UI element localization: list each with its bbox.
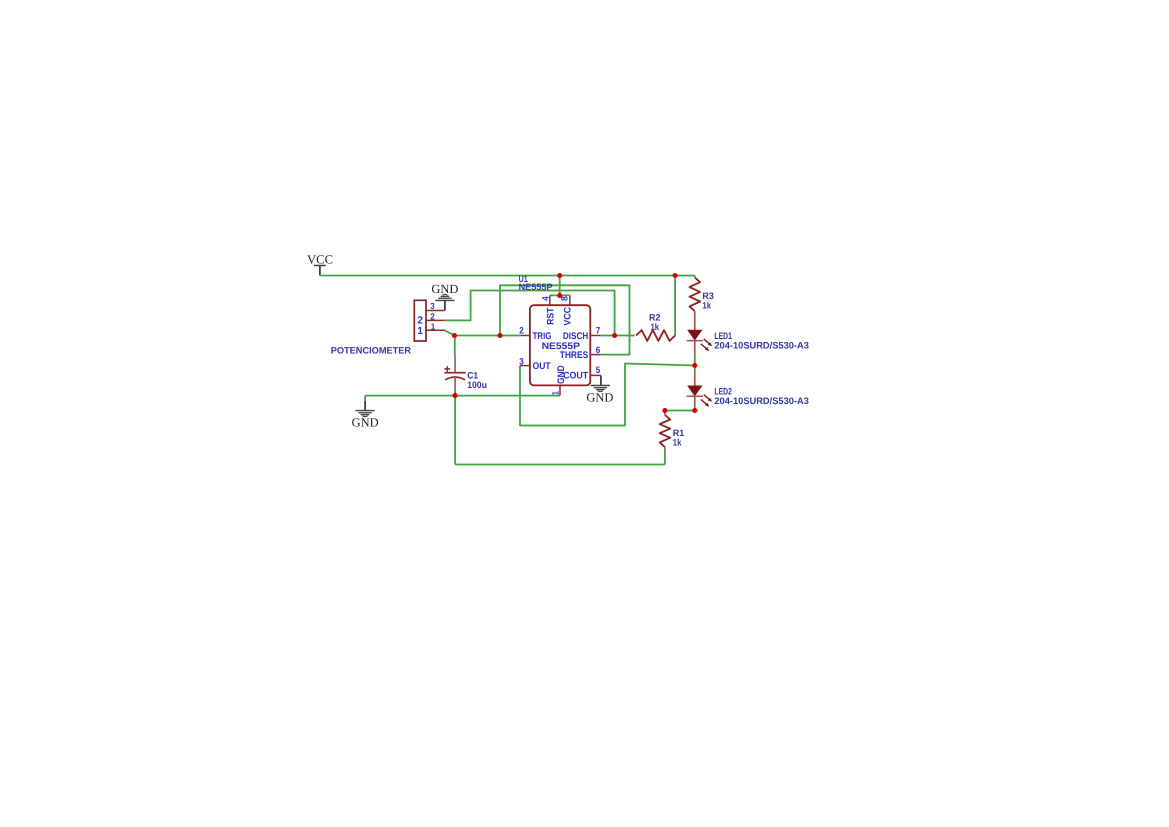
svg-text:RST: RST — [546, 307, 557, 325]
U1 pin 4 stub — [549, 295, 551, 305]
wire GND net — [365, 395, 560, 397]
net label VCC — [307, 252, 333, 266]
svg-text:6: 6 — [596, 345, 601, 355]
potentiometer body — [414, 300, 426, 341]
svg-text:NE555P: NE555P — [519, 282, 553, 292]
wire TRIG — [455, 335, 521, 337]
power symbol VCC — [314, 266, 326, 276]
svg-text:2: 2 — [519, 326, 524, 336]
potentiometer pin 1 stub — [426, 329, 445, 331]
potentiometer pin number 2 — [430, 311, 434, 321]
U1 pin number 6 — [596, 345, 601, 355]
wire VCC rail — [320, 275, 695, 277]
svg-text:5: 5 — [596, 365, 601, 375]
wire bottom rail — [455, 464, 665, 466]
resistor R2 — [636, 330, 675, 341]
U1 pin number 8 — [560, 296, 570, 301]
U1 pin name GND — [556, 365, 567, 384]
wire C1 to bottom rail — [454, 396, 456, 465]
svg-text:1: 1 — [551, 391, 561, 395]
U1 pin name TRIG — [533, 331, 552, 342]
label LED1 — [714, 330, 732, 341]
capacitor C1 top plate — [444, 372, 465, 374]
U1 pin number 5 — [596, 365, 601, 375]
resistor R1 — [660, 411, 671, 451]
U1 pin 6 stub — [590, 354, 601, 356]
ground at pin 5 — [586, 375, 613, 404]
ground at C1 — [352, 401, 379, 430]
junction VCC/IC — [557, 273, 562, 278]
label C1 — [467, 370, 478, 380]
U1 pin name DISCH — [563, 331, 588, 342]
svg-text:VCC: VCC — [307, 252, 333, 266]
LED2 — [687, 371, 713, 411]
U1 pin number 3 — [519, 357, 524, 367]
U1 pin 1 stub — [559, 385, 561, 395]
svg-text:204-10SURD/S530-A3: 204-10SURD/S530-A3 — [714, 339, 809, 350]
svg-text:2: 2 — [417, 315, 423, 326]
svg-text:3: 3 — [519, 357, 524, 367]
svg-text:POTENCIOMETER: POTENCIOMETER — [331, 346, 412, 356]
label R3 — [702, 291, 714, 301]
svg-text:OUT: OUT — [533, 361, 551, 372]
capacitor C1 plus sign — [444, 366, 450, 372]
junction C1/GND — [453, 393, 458, 398]
ground at potentiometer — [431, 282, 458, 311]
svg-text:C1: C1 — [467, 370, 478, 380]
U1 pin number 7 — [596, 326, 601, 336]
label LED2 — [714, 385, 732, 396]
junction VCC/R2 — [673, 273, 678, 278]
label LED1 value — [714, 339, 809, 350]
potentiometer pin name 1 — [417, 326, 423, 337]
wire VCC to IC top — [559, 276, 561, 296]
capacitor C1 top lead — [454, 356, 456, 372]
potentiometer pin 2 stub — [426, 319, 445, 321]
junction pins 4-8 — [557, 293, 562, 298]
svg-text:2: 2 — [430, 311, 434, 321]
wire THRES to TRIG — [500, 285, 630, 354]
wire R2 to VCC — [674, 276, 676, 336]
potentiometer pin name 2 — [417, 315, 423, 326]
wire R1 bottom — [664, 450, 666, 464]
U1 pin name VCC — [562, 307, 573, 326]
svg-text:4: 4 — [540, 296, 550, 301]
capacitor C1 bottom plate — [445, 377, 465, 380]
label R2 — [649, 313, 661, 323]
svg-text:THRES: THRES — [560, 350, 589, 361]
U1 pin name RST — [546, 307, 557, 325]
U1 pin 3 stub — [520, 365, 530, 367]
svg-text:1k: 1k — [651, 322, 660, 332]
svg-text:GND: GND — [586, 391, 613, 405]
resistor R3 — [690, 277, 701, 330]
U1 pin 2 stub — [520, 335, 530, 337]
U1 pin name THRES — [560, 350, 589, 361]
U1 pin name COUT — [563, 370, 588, 381]
op-amp U1 body — [530, 305, 590, 385]
wire pin4-pin8 jumper — [550, 294, 570, 296]
wire LED2 anode — [694, 366, 696, 372]
potentiometer pin number 3 — [430, 301, 434, 311]
potentiometer pin 3 stub — [426, 310, 445, 312]
svg-text:204-10SURD/S530-A3: 204-10SURD/S530-A3 — [714, 395, 809, 406]
junction R1 top — [662, 408, 667, 413]
U1 pin number 4 — [540, 296, 550, 301]
svg-text:VCC: VCC — [562, 307, 573, 326]
wire node down to C1 — [454, 336, 456, 357]
wire GND corner — [364, 396, 366, 401]
junction LED1/LED2/OUT — [692, 363, 697, 368]
U1 pin 7 stub — [590, 335, 601, 337]
svg-text:GND: GND — [352, 415, 379, 429]
svg-text:1k: 1k — [673, 437, 682, 447]
svg-text:3: 3 — [430, 301, 434, 311]
svg-text:1: 1 — [431, 322, 435, 332]
U1 pin number 2 — [519, 326, 524, 336]
wire R1 to LED2 — [665, 410, 695, 412]
label LED2 value — [714, 395, 809, 406]
U1 pin 5 stub — [590, 374, 601, 376]
label U1 — [519, 274, 528, 284]
potentiometer pin number 1 — [431, 322, 435, 332]
capacitor C1 bottom lead — [454, 377, 456, 395]
label NE555P — [519, 282, 553, 292]
junction LED2 cathode — [692, 408, 697, 413]
svg-text:GND: GND — [431, 282, 458, 296]
wire DISCH to R2 — [601, 335, 635, 337]
svg-text:COUT: COUT — [563, 370, 588, 381]
wire LED1 cathode — [694, 355, 696, 366]
svg-text:1: 1 — [417, 326, 423, 337]
label R3 value — [702, 300, 711, 310]
junction TRIG/THRES — [497, 333, 502, 338]
label R2 value — [651, 322, 660, 332]
LED1 — [687, 330, 713, 355]
wire R3 top corner — [694, 276, 696, 278]
label R1 value — [673, 437, 682, 447]
junction DISCH — [612, 333, 617, 338]
svg-text:7: 7 — [596, 326, 601, 336]
U1 part name NE555P — [542, 340, 580, 351]
label POTENCIOMETER — [331, 346, 412, 356]
wire pot pin1 diagonal — [445, 330, 455, 335]
U1 pin name OUT — [533, 361, 551, 372]
svg-text:1k: 1k — [702, 300, 711, 310]
label R1 — [673, 428, 685, 438]
U1 pin 8 stub — [569, 295, 571, 305]
wire OUT to LEDs — [520, 364, 695, 426]
junction pot pin1 — [452, 333, 457, 338]
U1 pin number 1 — [551, 391, 561, 395]
wire pot pin2 to DISCH — [445, 291, 615, 336]
svg-text:100u: 100u — [467, 380, 487, 390]
label 100u — [467, 380, 487, 390]
